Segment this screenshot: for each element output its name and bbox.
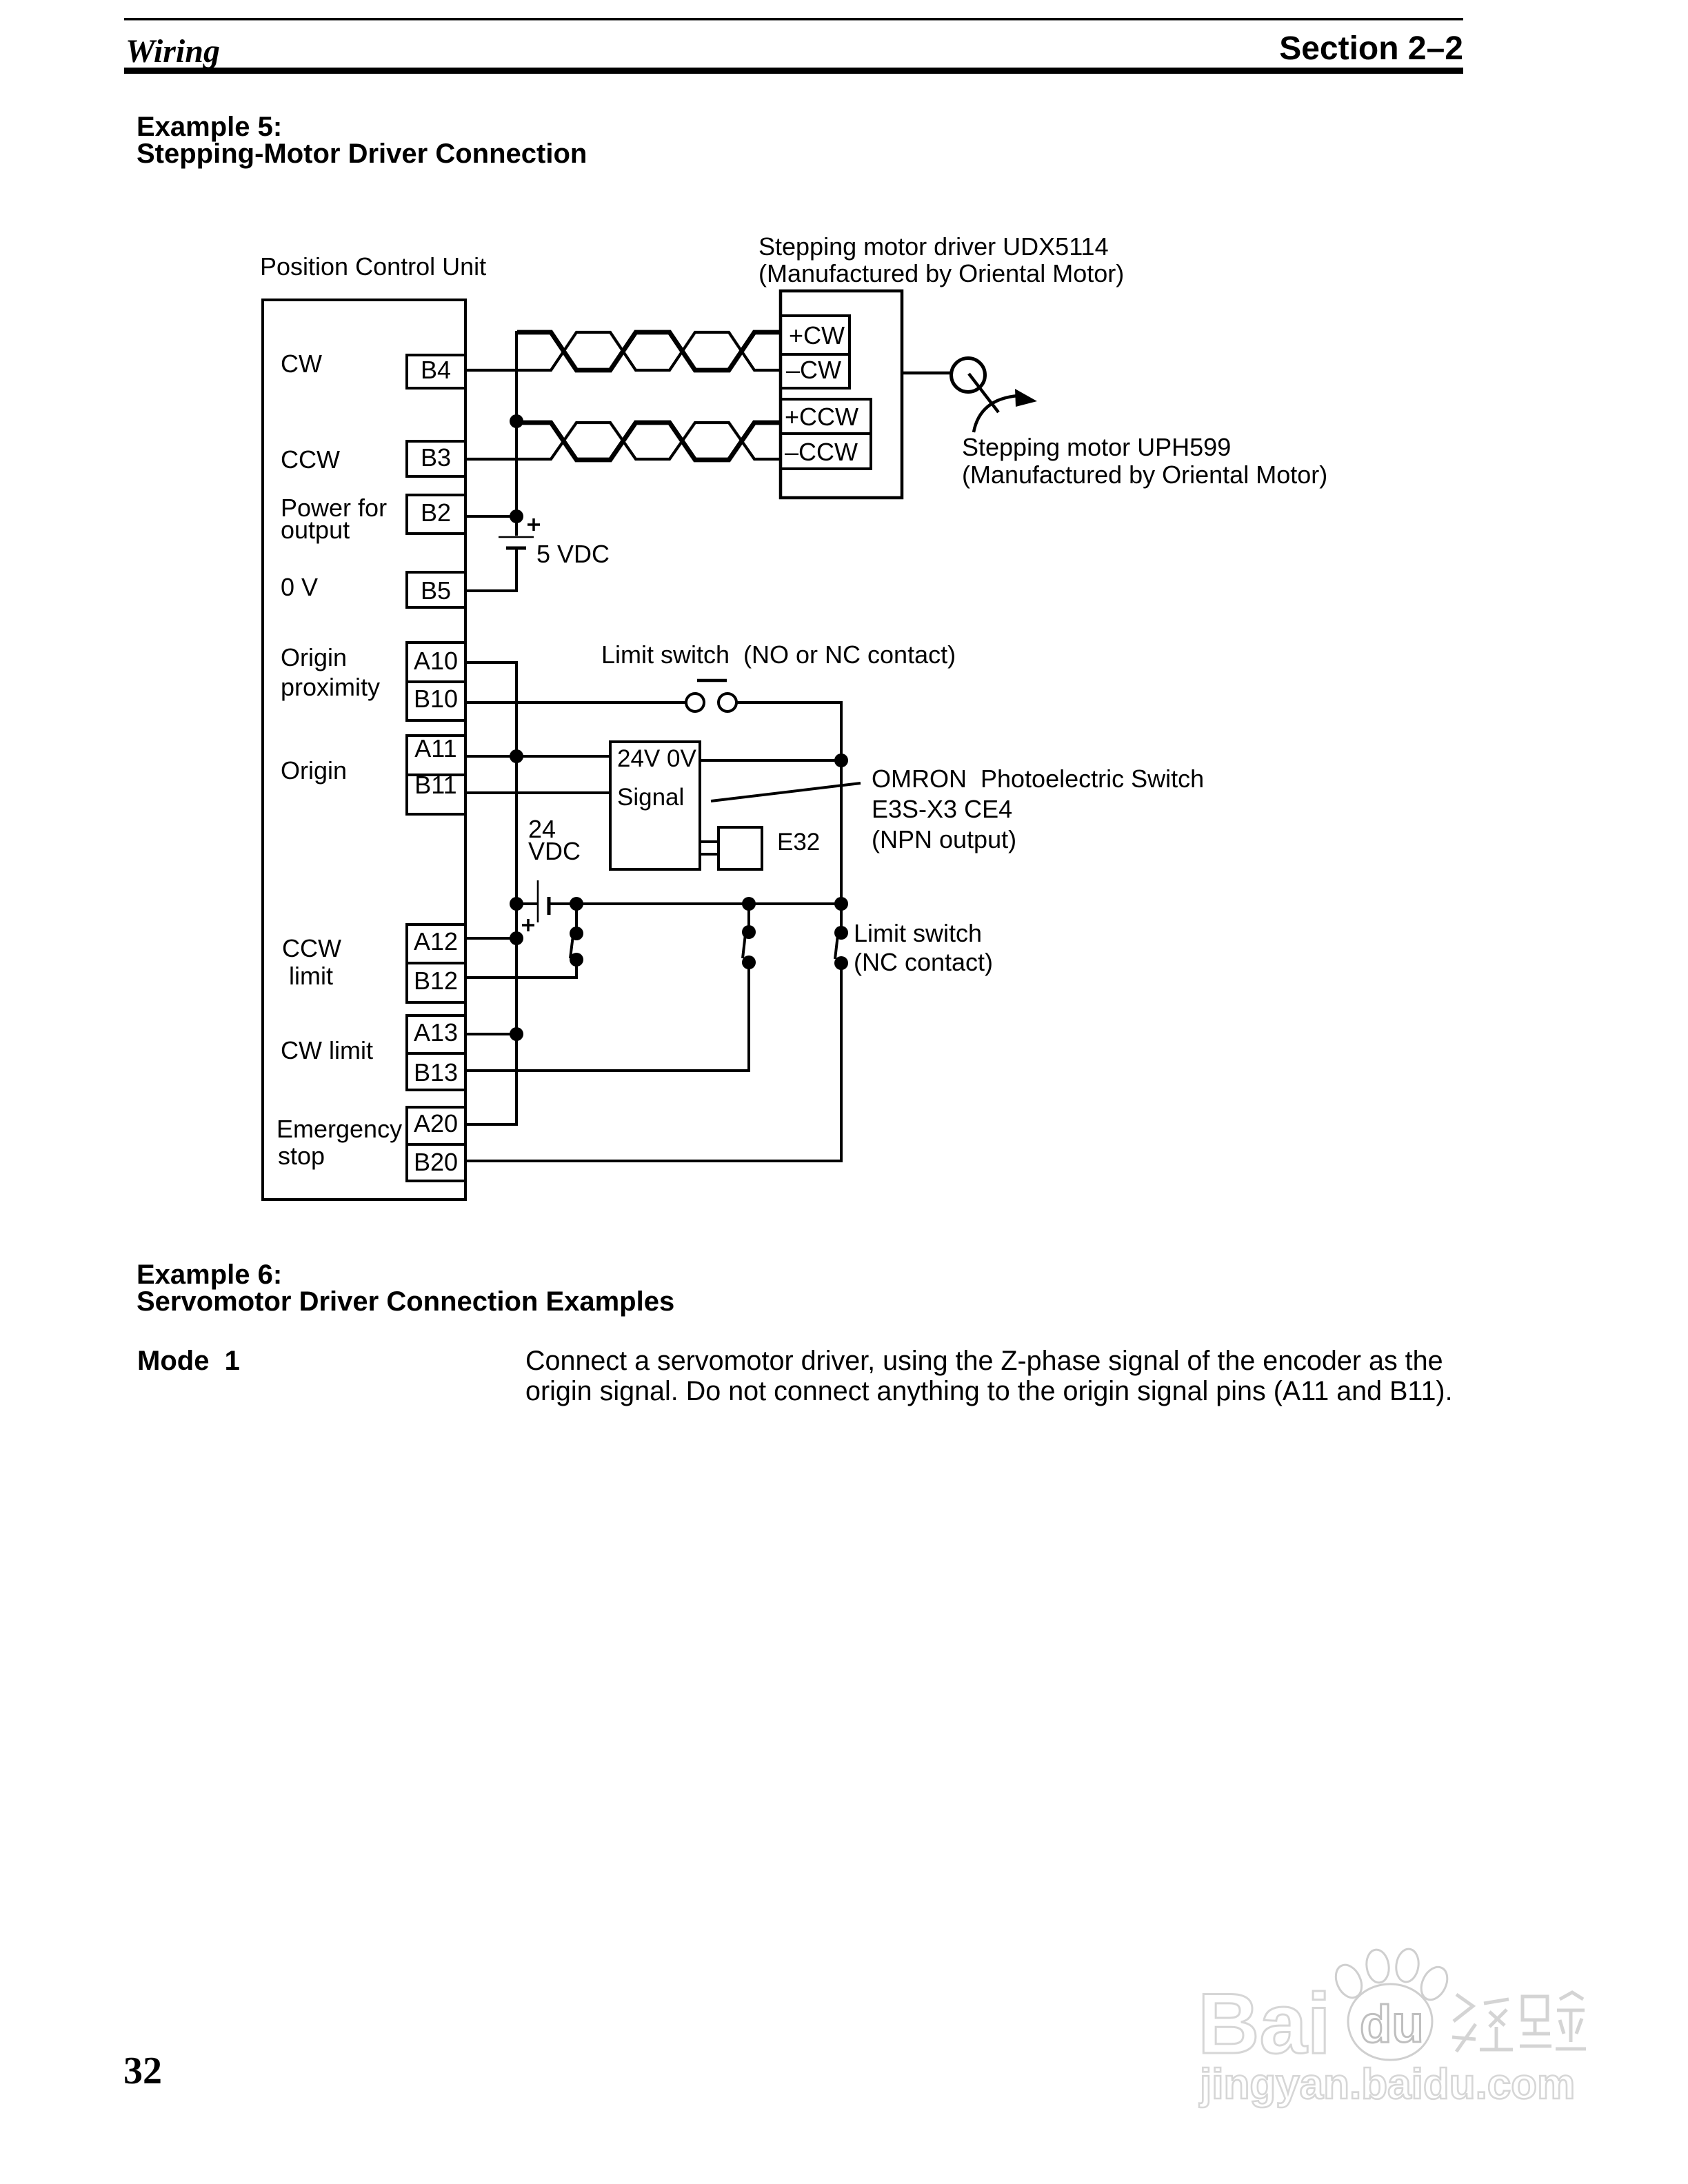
svg-text:B5: B5: [421, 576, 451, 605]
svg-text:–CW: –CW: [786, 356, 841, 384]
svg-text:A20: A20: [414, 1109, 458, 1137]
svg-text:B11: B11: [414, 771, 456, 799]
svg-text:B2: B2: [421, 498, 451, 527]
svg-text:B10: B10: [414, 685, 458, 713]
svg-text:B3: B3: [421, 443, 451, 472]
svg-text:B13: B13: [414, 1058, 458, 1086]
svg-text:(NC contact): (NC contact): [854, 948, 993, 976]
svg-text:A12: A12: [414, 927, 458, 956]
svg-text:proximity: proximity: [281, 673, 380, 701]
svg-text:–CCW: –CCW: [785, 438, 858, 466]
svg-text:Connect a servomotor driver, u: Connect a servomotor driver, using the Z…: [525, 1346, 1443, 1376]
svg-text:du: du: [1360, 1995, 1424, 2054]
svg-text:Example 5:: Example 5:: [137, 112, 282, 142]
svg-text:24V 0V: 24V 0V: [617, 745, 696, 772]
svg-text:B4: B4: [421, 356, 451, 384]
svg-text:A13: A13: [414, 1018, 458, 1046]
svg-text:origin signal. Do not connect: origin signal. Do not connect anything t…: [525, 1376, 1453, 1406]
svg-text:B12: B12: [414, 967, 458, 995]
svg-text:Signal: Signal: [617, 784, 684, 811]
svg-text:Wiring: Wiring: [125, 33, 220, 70]
svg-text:Limit switch: Limit switch: [854, 919, 982, 947]
svg-text:(NPN output): (NPN output): [872, 825, 1016, 853]
svg-text:Mode 1: Mode 1: [137, 1346, 240, 1376]
svg-text:A11: A11: [414, 734, 456, 762]
svg-text:Origin: Origin: [281, 756, 347, 785]
svg-text:32: 32: [123, 2050, 162, 2092]
svg-text:limit: limit: [289, 962, 333, 990]
svg-text:jingyan.baidu.com: jingyan.baidu.com: [1199, 2061, 1575, 2108]
svg-text:Section 2–2: Section 2–2: [1279, 30, 1463, 67]
svg-text:+CW: +CW: [789, 321, 845, 350]
svg-text:5 VDC: 5 VDC: [536, 540, 610, 568]
svg-text:Position Control Unit: Position Control Unit: [260, 252, 486, 281]
svg-text:OMRON Photoelectric Switch: OMRON Photoelectric Switch: [872, 765, 1204, 793]
svg-text:VDC: VDC: [528, 837, 581, 865]
svg-text:E3S-X3 CE4: E3S-X3 CE4: [872, 795, 1012, 823]
svg-text:Limit switch (NO or NC contac: Limit switch (NO or NC contact): [601, 640, 956, 669]
svg-text:0 V: 0 V: [281, 573, 318, 601]
svg-text:Stepping-Motor Driver Connecti: Stepping-Motor Driver Connection: [137, 139, 587, 169]
svg-text:E32: E32: [777, 829, 820, 856]
svg-text:(Manufactured by Oriental Moto: (Manufactured by Oriental Motor): [962, 461, 1327, 489]
svg-text:Example 6:: Example 6:: [137, 1260, 282, 1290]
svg-text:A10: A10: [414, 647, 458, 675]
svg-text:Origin: Origin: [281, 643, 347, 671]
svg-text:Servomotor Driver Connection E: Servomotor Driver Connection Examples: [137, 1286, 674, 1317]
svg-text:CCW: CCW: [281, 445, 340, 474]
svg-text:(Manufactured by Oriental Moto: (Manufactured by Oriental Motor): [758, 259, 1124, 287]
svg-text:Stepping motor UPH599: Stepping motor UPH599: [962, 433, 1231, 461]
svg-text:Bai: Bai: [1198, 1976, 1331, 2072]
svg-text:stop: stop: [278, 1142, 325, 1170]
svg-text:+CCW: +CCW: [785, 403, 858, 431]
svg-text:output: output: [281, 516, 350, 544]
svg-text:B20: B20: [414, 1148, 458, 1176]
svg-text:Stepping motor driver UDX5114: Stepping motor driver UDX5114: [758, 232, 1109, 261]
svg-text:CW limit: CW limit: [281, 1036, 373, 1064]
svg-text:Emergency: Emergency: [277, 1115, 402, 1143]
svg-text:CW: CW: [281, 350, 322, 378]
svg-text:CCW: CCW: [282, 934, 341, 962]
